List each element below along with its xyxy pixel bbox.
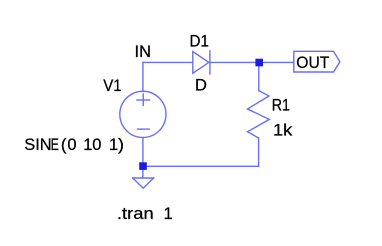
OUT flag [294,51,340,72]
svg-text:0: 0 [92,136,101,154]
svg-text:D: D [195,76,207,94]
label SINE(0 10 1) [24,136,124,154]
wire junction down to resistor [258,62,260,90]
svg-text:1: 1 [83,136,92,154]
svg-text:V1: V1 [103,77,122,95]
diode D1 [193,51,210,74]
wire IN vertical to V1 top [142,62,144,91]
svg-text:1k: 1k [273,121,293,139]
svg-text:1: 1 [109,136,118,154]
svg-text:0: 0 [67,136,76,154]
svg-text:1: 1 [164,205,173,223]
wire resistor bottom [258,138,260,166]
resistor R1 [248,91,270,138]
label .tran 1 [117,205,173,223]
svg-text:): ) [118,136,124,154]
svg-text:IN: IN [135,43,152,61]
ground [133,178,154,188]
svg-text:OUT: OUT [296,54,329,72]
voltage source V1 [120,91,166,137]
svg-text:D1: D1 [190,33,209,51]
node junction at diode/resistor [255,59,263,67]
wire IN horizontal [143,61,193,63]
svg-text:R1: R1 [272,97,290,115]
svg-text:SIN: SIN [24,136,52,154]
wire V1 bottom to ground junction [142,137,144,178]
wire diode to OUT flag [210,61,294,63]
wire bottom horizontal [143,165,259,167]
svg-text:.tran: .tran [117,205,154,223]
svg-text:E: E [51,136,59,154]
svg-text:(: ( [61,136,67,154]
node junction at ground [139,162,147,170]
